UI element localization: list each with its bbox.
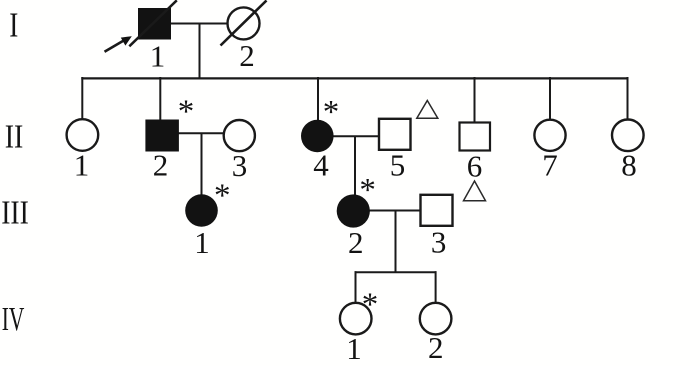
svg-text:8: 8 [621,148,637,183]
svg-text:*: * [178,94,195,130]
svg-text:I: I [9,5,18,44]
svg-text:II: II [5,117,24,155]
svg-text:*: * [323,95,340,131]
svg-text:*: * [362,287,379,323]
svg-text:3: 3 [232,148,248,183]
svg-text:1: 1 [346,331,362,366]
svg-text:5: 5 [390,147,406,182]
svg-text:*: * [359,173,376,209]
svg-text:1: 1 [194,225,210,260]
svg-text:2: 2 [348,225,364,260]
svg-text:2: 2 [428,330,444,365]
svg-text:6: 6 [467,148,483,183]
svg-text:3: 3 [431,224,447,259]
svg-text:4: 4 [313,147,329,182]
svg-text:IV: IV [2,301,25,338]
svg-text:III: III [1,193,29,231]
svg-text:2: 2 [153,147,169,182]
svg-text:*: * [214,178,231,214]
svg-text:1: 1 [150,38,166,73]
svg-text:2: 2 [239,38,255,73]
svg-text:7: 7 [542,148,558,183]
svg-text:1: 1 [74,148,90,183]
